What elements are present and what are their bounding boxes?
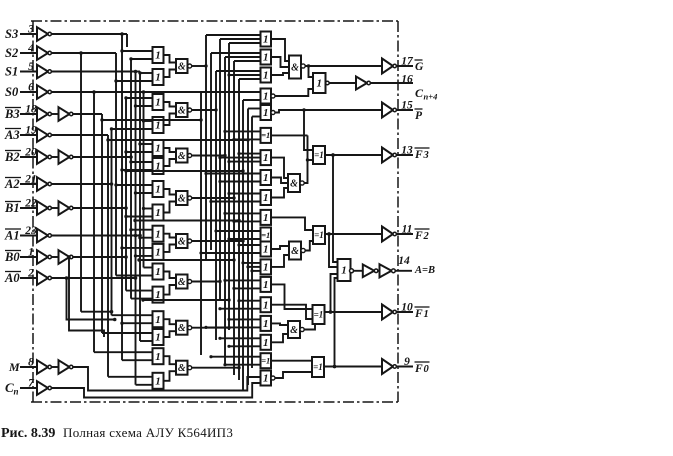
- pin 15 label P: [401, 100, 423, 123]
- svg-text:&: &: [178, 363, 186, 374]
- wire: [133, 219, 240, 222]
- svg-text:A0: A0: [4, 271, 20, 285]
- XOR gate =1 (F2): [271, 217, 325, 250]
- wire bus: [224, 57, 226, 365]
- gate 1 (col2 #9): [209, 190, 271, 205]
- wire: [51, 182, 113, 186]
- wire: [192, 280, 222, 283]
- svg-text:1: 1: [263, 107, 269, 119]
- AND gate & (col2b #4): [271, 321, 304, 342]
- wire bus: [125, 98, 127, 291]
- svg-text:1: 1: [263, 318, 269, 330]
- AND gate & (col1 #1): [164, 55, 192, 77]
- wire M net: [73, 367, 261, 391]
- svg-text:&: &: [178, 61, 186, 72]
- svg-text:P: P: [415, 110, 423, 122]
- wire bus: [115, 53, 117, 276]
- svg-text:1: 1: [155, 228, 161, 240]
- wire bus: [143, 92, 145, 268]
- svg-text:1: 1: [263, 52, 269, 64]
- wire bus: [101, 114, 103, 333]
- input buffer B0: [4, 247, 73, 265]
- wire bus: [247, 109, 249, 386]
- output buffer Cn+4 (pin 16): [329, 77, 413, 90]
- gate =1 (col2 #6): [223, 128, 271, 143]
- wire Cn net: [51, 383, 260, 398]
- AND gate & (G): [271, 39, 305, 79]
- svg-text:1: 1: [317, 78, 323, 90]
- svg-text:13: 13: [401, 145, 413, 157]
- svg-text:3: 3: [423, 150, 429, 161]
- gate 1 (col2 #19): [261, 371, 276, 386]
- OR gate 1 (col1 #5): [124, 140, 163, 156]
- svg-text:=1: =1: [261, 356, 270, 366]
- gate 1 (col2 #4): [201, 89, 275, 104]
- pin 13 label F3: [401, 145, 429, 162]
- svg-text:1: 1: [155, 120, 161, 132]
- svg-text:G: G: [415, 61, 424, 73]
- wire bus: [111, 129, 113, 315]
- AND gate & (col1 #6): [164, 272, 192, 295]
- gate 1 (col2 #16): [204, 316, 271, 331]
- output buffer P (pin 15): [275, 103, 413, 118]
- gate 1 (col2 #10): [223, 210, 271, 225]
- svg-text:17: 17: [401, 56, 414, 68]
- AND gate & (col2b #3): [271, 242, 305, 267]
- input buffer A0: [4, 268, 51, 286]
- AND gate & (col1 #8): [164, 356, 192, 381]
- svg-text:15: 15: [401, 100, 413, 112]
- input buffer S3: [5, 24, 51, 42]
- wire bus: [135, 72, 137, 385]
- svg-text:&: &: [290, 325, 298, 336]
- junction: [120, 32, 124, 36]
- OR gate 1 (col1 #9): [129, 226, 163, 242]
- svg-text:1: 1: [155, 266, 161, 278]
- OR gate 1 (col1 #14): [102, 329, 164, 345]
- wire bus: [107, 135, 109, 377]
- wire S3 row: [51, 34, 127, 47]
- svg-text:1: 1: [155, 247, 161, 259]
- gate 1 (col2 #5): [248, 105, 275, 120]
- wire bus: [233, 61, 235, 375]
- svg-text:1: 1: [263, 70, 269, 82]
- gate 1 (col2 #15): [218, 297, 271, 312]
- pin 10 label F1: [401, 302, 429, 321]
- svg-text:A1: A1: [4, 229, 20, 243]
- svg-text:9: 9: [404, 356, 410, 368]
- svg-text:F: F: [414, 308, 423, 320]
- svg-text:n: n: [14, 387, 19, 397]
- svg-text:=1: =1: [313, 362, 323, 372]
- wire bus: [205, 35, 207, 260]
- input buffer B3: [4, 104, 73, 122]
- svg-text:1: 1: [263, 172, 269, 184]
- wire: [141, 298, 230, 301]
- wire bus: [228, 43, 230, 330]
- svg-text:1: 1: [263, 152, 269, 164]
- svg-text:B2: B2: [4, 150, 20, 164]
- svg-text:1: 1: [155, 332, 161, 344]
- svg-text:1: 1: [263, 192, 269, 204]
- svg-text:1: 1: [263, 337, 269, 349]
- AND gate & (col1 #7): [164, 319, 192, 337]
- svg-text:1: 1: [155, 50, 161, 62]
- input buffer B2: [4, 147, 73, 165]
- wire: [192, 64, 208, 67]
- wire: [51, 234, 141, 238]
- wire: [65, 276, 117, 321]
- svg-text:&: &: [290, 178, 298, 189]
- svg-text:0: 0: [424, 364, 430, 375]
- svg-text:=1: =1: [314, 309, 324, 319]
- svg-text:1: 1: [263, 262, 269, 274]
- svg-text:&: &: [178, 105, 186, 116]
- svg-text:=1: =1: [261, 130, 270, 140]
- svg-text:2: 2: [423, 231, 430, 242]
- gate 1 (col2 #14): [223, 277, 271, 292]
- XOR gate =1 (F0): [271, 357, 324, 378]
- gate 1 (col2 #7): [218, 150, 271, 165]
- input buffer S0: [5, 82, 51, 100]
- svg-text:11: 11: [402, 224, 413, 236]
- pin 14 label A=B: [398, 255, 435, 276]
- gate 1 (col2 #17): [218, 335, 271, 350]
- svg-text:=1: =1: [314, 230, 324, 240]
- svg-text:B3: B3: [4, 107, 20, 121]
- wire: [67, 255, 104, 337]
- svg-text:S1: S1: [5, 65, 18, 79]
- svg-text:S0: S0: [5, 85, 19, 99]
- svg-text:&: &: [178, 151, 186, 162]
- wire: [192, 239, 245, 242]
- OR gate 1 (col1 #13): [112, 311, 164, 327]
- wire: [73, 113, 102, 115]
- input buffer S2: [5, 43, 51, 61]
- svg-text:M: M: [8, 360, 20, 374]
- wire: [192, 366, 241, 369]
- output buffer F3 (pin 13): [325, 148, 413, 163]
- svg-text:&: &: [178, 323, 186, 334]
- wire: [124, 169, 244, 172]
- svg-text:1: 1: [263, 373, 269, 385]
- gate =1 (col2 #18): [209, 353, 271, 368]
- wire bus: [238, 79, 240, 380]
- input buffer A1: [4, 225, 51, 243]
- wire bus: [200, 92, 202, 355]
- OR gate 1 (col1 #15): [94, 348, 164, 364]
- wire: [106, 138, 249, 141]
- wire bus: [139, 72, 141, 342]
- wire: [192, 326, 231, 329]
- wire bus: [130, 59, 132, 299]
- svg-text:A3: A3: [4, 128, 20, 142]
- AND gate 1 (A=B): [327, 153, 353, 368]
- svg-text:=1: =1: [261, 230, 270, 240]
- pin 9 label F0: [404, 356, 429, 375]
- svg-text:B1: B1: [4, 201, 20, 215]
- wire bus: [242, 100, 244, 391]
- wire: [81, 310, 113, 314]
- svg-text:&: &: [291, 62, 299, 73]
- input buffer M: [8, 357, 73, 375]
- gate 1 (col2 #13): [241, 259, 271, 274]
- svg-text:1: 1: [263, 91, 269, 103]
- svg-text:10: 10: [401, 302, 413, 314]
- AND gate & (col1 #2): [164, 102, 192, 125]
- svg-text:F: F: [414, 363, 423, 375]
- wire: [51, 70, 140, 74]
- svg-text:A2: A2: [4, 177, 20, 191]
- output buffer F2 (pin 11): [325, 227, 413, 242]
- output buffer F1 (pin 10): [325, 305, 413, 320]
- svg-text:S3: S3: [5, 27, 18, 41]
- output buffer F0 (pin 9): [324, 359, 413, 374]
- OR gate 1 (Cn+4): [275, 64, 329, 96]
- wire bus: [80, 53, 82, 312]
- XOR gate =1 (F3): [271, 108, 325, 183]
- svg-text:1: 1: [263, 279, 269, 291]
- svg-text:1: 1: [155, 97, 161, 109]
- wire: [73, 206, 128, 210]
- svg-text:n+4: n+4: [424, 92, 438, 102]
- svg-text:Рис. 8.39: Рис. 8.39: [1, 426, 55, 441]
- gate 1 (col2 #12): [199, 242, 271, 257]
- svg-text:&: &: [178, 277, 186, 288]
- svg-text:1: 1: [263, 212, 269, 224]
- wire bus: [215, 71, 217, 340]
- OR gate 1 (col1 #3): [124, 94, 163, 110]
- svg-text:=1: =1: [314, 150, 324, 160]
- AND gate & (col1 #3): [164, 148, 192, 166]
- caption: [1, 425, 233, 441]
- pin 16 label Cn+4: [401, 74, 437, 102]
- input buffer Cn: [5, 378, 51, 397]
- OR gate 1 (col1 #8): [124, 205, 163, 221]
- pin 11 label F2: [402, 224, 430, 243]
- input buffer A2: [4, 174, 51, 192]
- svg-text:14: 14: [398, 255, 410, 267]
- svg-text:S2: S2: [5, 46, 18, 60]
- wire: [73, 155, 133, 159]
- svg-text:1: 1: [263, 244, 269, 256]
- svg-text:Полная схема АЛУ К564ИП3: Полная схема АЛУ К564ИП3: [63, 425, 233, 440]
- svg-text:1: 1: [341, 265, 347, 277]
- OR gate 1 (col1 #4): [110, 117, 164, 133]
- svg-text:1: 1: [263, 34, 269, 46]
- svg-text:B0: B0: [4, 250, 20, 264]
- AND gate & (col2b #2): [271, 158, 304, 198]
- svg-text:A=B: A=B: [414, 265, 435, 276]
- OR gate 1 (col1 #6): [120, 158, 163, 174]
- svg-text:1: 1: [155, 72, 161, 84]
- OR gate 1 (col1 #12): [126, 287, 164, 303]
- wire: [51, 90, 206, 94]
- gate =1 (col2 #11): [214, 228, 271, 243]
- AND gate & (col1 #5): [164, 234, 192, 252]
- wire: [73, 255, 128, 259]
- wire: [51, 276, 137, 280]
- wire: [192, 154, 227, 157]
- input buffer B1: [4, 198, 73, 216]
- input buffer S1: [5, 61, 51, 79]
- gate 1 (col2 #2): [211, 50, 271, 65]
- wire: [100, 118, 202, 121]
- wire: [137, 258, 235, 261]
- svg-text:1: 1: [155, 184, 161, 196]
- gate 1 (col2 #3): [216, 68, 271, 83]
- wire: [51, 51, 116, 55]
- wire bus: [219, 39, 221, 300]
- wire bus: [251, 117, 253, 369]
- IC boundary frame (dash-dot): [31, 21, 398, 402]
- OR gate 1 (col1 #16): [108, 373, 164, 389]
- svg-text:1: 1: [424, 309, 429, 320]
- wire: [51, 134, 108, 136]
- svg-text:F: F: [414, 230, 423, 242]
- OR gate 1 (col1 #7): [114, 181, 163, 197]
- OR gate 1 (col1 #11): [116, 264, 164, 280]
- svg-text:1: 1: [155, 143, 161, 155]
- svg-text:&: &: [291, 246, 299, 257]
- wire: [192, 196, 236, 199]
- svg-text:1: 1: [155, 207, 161, 219]
- XOR gate =1 (F1): [271, 284, 325, 329]
- gate 1 (col2 #8): [204, 170, 271, 185]
- wire bus: [210, 53, 212, 250]
- pin 17 label G: [401, 56, 424, 74]
- OR gate 1 (col1 #2): [114, 69, 163, 85]
- svg-text:16: 16: [401, 74, 413, 86]
- svg-text:F: F: [414, 149, 423, 161]
- output buffer G (pin 17): [305, 59, 413, 74]
- OR gate 1 (col1 #1): [120, 47, 163, 63]
- wire: [192, 108, 218, 111]
- svg-text:1: 1: [155, 375, 161, 387]
- wire bus: [121, 34, 123, 360]
- AND gate & (col1 #4): [164, 189, 192, 213]
- svg-text:&: &: [178, 193, 186, 204]
- input buffer A3: [4, 125, 51, 143]
- wire bus: [93, 92, 95, 352]
- gate 1 (col2 #1): [206, 32, 271, 47]
- svg-text:1: 1: [155, 351, 161, 363]
- svg-text:1: 1: [263, 299, 269, 311]
- output buffer A=B (pin 14): [354, 264, 413, 277]
- svg-text:1: 1: [155, 314, 161, 326]
- OR gate 1 (col1 #10): [120, 244, 163, 260]
- svg-text:&: &: [178, 236, 186, 247]
